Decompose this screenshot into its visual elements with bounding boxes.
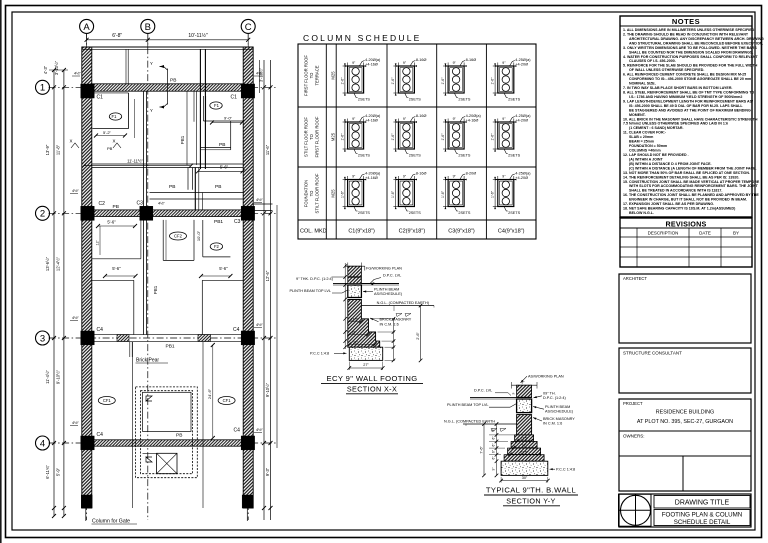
svg-text:FIRST FLOOR ROOF: FIRST FLOOR ROOF bbox=[304, 55, 309, 96]
svg-text:24'-6": 24'-6" bbox=[207, 388, 212, 399]
svg-text:IN C.M. 1:6: IN C.M. 1:6 bbox=[543, 421, 562, 425]
Y-Y dpc in stem bbox=[517, 396, 532, 398]
svg-text:X: X bbox=[70, 139, 73, 144]
svg-text:17. EXPANSION JOINT SHALL BE A: 17. EXPANSION JOINT SHALL BE AS PER DRAW… bbox=[623, 202, 714, 206]
X-X right dim 2-6 bbox=[420, 306, 422, 361]
interior v x203 bbox=[202, 342, 204, 508]
right dim line 3 bbox=[276, 205, 278, 448]
logo circle bbox=[621, 495, 651, 525]
svg-text:1'-6": 1'-6" bbox=[441, 133, 445, 141]
svg-text:6": 6" bbox=[492, 457, 496, 460]
svg-text:C1: C1 bbox=[231, 95, 238, 101]
svg-text:9. LAP LENGTH/DEVELOPMENT LEN: 9. LAP LENGTH/DEVELOPMENT LENGTH FOR REI… bbox=[623, 99, 753, 103]
M25 label row 3 bbox=[331, 189, 336, 198]
dim line right of room bbox=[134, 99, 136, 138]
column section C2 row 2 bbox=[391, 114, 426, 157]
column C4 at A3 bbox=[81, 331, 94, 345]
svg-text:CLAUSES OF I.S. 456-2000.: CLAUSES OF I.S. 456-2000. bbox=[629, 59, 676, 63]
column C1 at C1 bbox=[241, 84, 254, 98]
beam row 3 bottom edge bbox=[94, 340, 243, 342]
svg-text:PB: PB bbox=[107, 146, 113, 151]
Y-Y NGL line bbox=[463, 423, 517, 425]
Y-Y bottom dim 30 bbox=[501, 480, 548, 482]
dim line 24-6 bbox=[212, 345, 214, 438]
svg-text:OF WALL UNLESS OTHERWISE SPECI: OF WALL UNLESS OTHERWISE SPECIFIED. bbox=[629, 68, 704, 72]
svg-text:F1: F1 bbox=[112, 114, 118, 119]
svg-text:9'-0": 9'-0" bbox=[224, 116, 233, 121]
X-X PCC base bbox=[349, 347, 382, 360]
svg-text:12': 12' bbox=[96, 240, 100, 245]
svg-text:2SETS: 2SETS bbox=[458, 211, 470, 215]
X-X masonry stepped hatched bbox=[348, 300, 380, 348]
svg-text:M25: M25 bbox=[331, 189, 336, 198]
interior wall line x126 bbox=[125, 49, 127, 84]
svg-text:12'-6": 12'-6" bbox=[265, 270, 270, 281]
svg-text:1'-6": 1'-6" bbox=[340, 77, 344, 85]
Y-Y dpc line left bbox=[470, 396, 517, 398]
svg-text:(A) WITHIN A JOINT: (A) WITHIN A JOINT bbox=[629, 157, 663, 161]
beam PB mid double bbox=[150, 192, 244, 194]
svg-text:C4(9"x18"): C4(9"x18") bbox=[498, 229, 525, 235]
right dim 9-10 bbox=[265, 382, 270, 397]
svg-text:8-16Ø: 8-16Ø bbox=[416, 114, 427, 118]
left dim 6-11 bbox=[45, 465, 50, 479]
svg-text:A: A bbox=[83, 22, 90, 33]
grid circle 3 bbox=[36, 331, 50, 345]
svg-text:6": 6" bbox=[492, 429, 496, 432]
svg-text:AS/WORKING PLAN: AS/WORKING PLAN bbox=[528, 374, 564, 378]
svg-text:4½": 4½" bbox=[72, 420, 80, 425]
right dim 9-3 bbox=[265, 467, 270, 476]
svg-text:2SETS: 2SETS bbox=[508, 154, 520, 158]
partition pair below y167 bbox=[187, 168, 189, 190]
notes panel box bbox=[620, 16, 752, 217]
grid line C upper bbox=[247, 34, 249, 85]
svg-text:7'-6": 7'-6" bbox=[480, 446, 484, 454]
column section C1 row 1 bbox=[340, 58, 381, 101]
svg-text:4½": 4½" bbox=[158, 201, 166, 206]
svg-text:4½": 4½" bbox=[72, 315, 80, 320]
svg-text:CF1: CF1 bbox=[223, 398, 232, 403]
column section C3 row 1 bbox=[441, 58, 476, 101]
svg-text:5'-6": 5'-6" bbox=[219, 266, 228, 271]
svg-text:11'-8": 11'-8" bbox=[56, 144, 61, 155]
svg-text:9": 9" bbox=[522, 380, 525, 384]
svg-text:+4-16Ø: +4-16Ø bbox=[365, 176, 378, 180]
svg-text:13'-9": 13'-9" bbox=[45, 144, 50, 155]
svg-text:2. THE DRAWING SHOULD BE READ: 2. THE DRAWING SHOULD BE READ IN CONJUNC… bbox=[623, 32, 749, 36]
svg-text:1: 1 bbox=[40, 83, 45, 94]
vertical beam PB1b left bbox=[199, 49, 201, 169]
svg-text:F1: F1 bbox=[214, 103, 220, 108]
svg-text:1'-6": 1'-6" bbox=[441, 190, 445, 198]
svg-text:STILT FLOOR ROOF: STILT FLOOR ROOF bbox=[304, 117, 309, 157]
svg-text:FG/WORKING PLAN: FG/WORKING PLAN bbox=[366, 266, 402, 270]
column C3 at C2 bbox=[241, 206, 254, 220]
svg-text:1'-6": 1'-6" bbox=[491, 77, 495, 85]
pit inner solid rect bbox=[143, 392, 192, 431]
room line right v bbox=[203, 96, 205, 121]
svg-text:+4-16Ø: +4-16Ø bbox=[365, 62, 378, 66]
grid circle 1 bbox=[36, 80, 50, 94]
X-X bottom dim 27 bbox=[349, 367, 382, 369]
column base at A bottom bbox=[81, 495, 92, 508]
svg-text:SCHEDULE DETAIL: SCHEDULE DETAIL bbox=[674, 519, 731, 526]
footing mark F2 bbox=[210, 243, 222, 250]
vertical beam PB1 spine bbox=[143, 91, 145, 334]
svg-text:SECTION Y-Y: SECTION Y-Y bbox=[506, 496, 556, 505]
svg-text:13'-6½": 13'-6½" bbox=[45, 256, 50, 271]
svg-text:P.C.C 1:4:8: P.C.C 1:4:8 bbox=[556, 467, 575, 471]
svg-text:9'-10½": 9'-10½" bbox=[265, 382, 270, 397]
Y-Y stepped footing bbox=[515, 435, 534, 442]
svg-text:TO: TO bbox=[309, 133, 314, 139]
svg-text:SHALL BE COUNTED NOR THE DIMEN: SHALL BE COUNTED NOR THE DIMENSION SCALE… bbox=[629, 50, 753, 54]
wall A bottom bbox=[82, 507, 92, 509]
svg-text:SLAB = 20mm: SLAB = 20mm bbox=[629, 135, 653, 139]
svg-text:C2(9"x18"): C2(9"x18") bbox=[399, 229, 426, 235]
svg-text:2SETS: 2SETS bbox=[458, 154, 470, 158]
svg-text:Brick Pear: Brick Pear bbox=[136, 358, 159, 364]
svg-text:STILT FLOOR ROOF: STILT FLOOR ROOF bbox=[315, 173, 320, 213]
footing mark CF2 bbox=[170, 232, 187, 240]
room right v x202 bbox=[202, 220, 204, 257]
svg-text:TO: TO bbox=[309, 190, 314, 196]
logo box bbox=[619, 494, 652, 526]
svg-text:2SETS: 2SETS bbox=[508, 211, 520, 215]
svg-text:11'-4½": 11'-4½" bbox=[45, 370, 50, 384]
drawing title name box bbox=[654, 510, 750, 526]
svg-text:1'-6": 1'-6" bbox=[441, 77, 445, 85]
pit outer dashed rect bbox=[136, 387, 198, 478]
dim 10-0 rotated bbox=[196, 230, 201, 241]
svg-text:2SETS: 2SETS bbox=[409, 98, 421, 102]
right dim 3-10 bbox=[259, 67, 264, 82]
grid line 2 bbox=[49, 212, 278, 214]
grid circle 2 bbox=[36, 206, 50, 220]
svg-text:10'-0": 10'-0" bbox=[196, 230, 201, 241]
svg-text:C3: C3 bbox=[234, 219, 241, 225]
footing mark CF1 right bbox=[218, 397, 235, 405]
column section C2 row 1 bbox=[391, 58, 426, 101]
svg-text:M25: M25 bbox=[331, 71, 336, 80]
svg-text:PB: PB bbox=[170, 78, 176, 84]
svg-text:8-16Ø: 8-16Ø bbox=[416, 58, 427, 62]
svg-text:5'-6": 5'-6" bbox=[220, 165, 229, 170]
interior v x132 bbox=[132, 342, 134, 508]
svg-text:30": 30" bbox=[522, 476, 528, 480]
footing mark CF1 left bbox=[98, 397, 115, 405]
svg-text:9'-3": 9'-3" bbox=[265, 467, 270, 476]
room line 2-3 left h bbox=[92, 258, 141, 260]
svg-text:RESIDENCE BUILDING: RESIDENCE BUILDING bbox=[656, 410, 714, 416]
room mid right v bbox=[193, 220, 195, 261]
svg-text:C1: C1 bbox=[97, 95, 104, 101]
svg-text:TERRACE: TERRACE bbox=[315, 65, 320, 85]
svg-text:C4: C4 bbox=[97, 327, 104, 333]
right dim 11-6 bbox=[265, 144, 270, 155]
svg-text:4½": 4½" bbox=[74, 71, 82, 76]
svg-text:9" THK. D.P.C. (1:2:4): 9" THK. D.P.C. (1:2:4) bbox=[296, 277, 334, 281]
svg-text:1'-6": 1'-6" bbox=[491, 190, 495, 198]
pit step mark bottom bbox=[146, 457, 152, 462]
beam row 3 hatch patch left bbox=[117, 335, 129, 342]
X-X right step dims bbox=[393, 319, 395, 361]
grid circle B bbox=[141, 19, 155, 33]
svg-text:1'-6": 1'-6" bbox=[391, 190, 395, 198]
right dim line short bbox=[259, 60, 261, 93]
svg-text:IS: 456-2000 SHALL BE 49 D DIA: IS: 456-2000 SHALL BE 49 D DIA. OF BAR F… bbox=[629, 104, 743, 108]
svg-text:+4-16Ø: +4-16Ø bbox=[466, 118, 479, 122]
svg-text:7.5 N/mm2 UNLESS OTHERWISE SPE: 7.5 N/mm2 UNLESS OTHERWISE SPECIFIED AND… bbox=[623, 122, 728, 126]
svg-text:1'-6": 1'-6" bbox=[391, 133, 395, 141]
X-X plinth bottom line bbox=[348, 297, 362, 299]
svg-text:2SETS: 2SETS bbox=[358, 154, 370, 158]
room partition lines below beam bbox=[186, 91, 188, 165]
right dim 12-6 bbox=[265, 270, 270, 281]
svg-text:DRAWING TITLE: DRAWING TITLE bbox=[675, 500, 730, 507]
svg-text:6. ALL REINFORCED CEMENT CONC: 6. ALL REINFORCED CEMENT CONCRETE SHALL … bbox=[623, 73, 746, 77]
svg-text:Y: Y bbox=[150, 61, 153, 66]
svg-text:C4: C4 bbox=[233, 327, 240, 333]
Y-Y plinth beam bbox=[517, 399, 532, 413]
svg-text:ECY 9" WALL FOOTING: ECY 9" WALL FOOTING bbox=[326, 374, 417, 383]
svg-text:B: B bbox=[145, 22, 151, 33]
svg-text:9'-10½": 9'-10½" bbox=[56, 369, 61, 384]
grid circle A bbox=[80, 19, 94, 33]
svg-text:15. CONSTRUCTION JOINT SHALL B: 15. CONSTRUCTION JOINT SHALL BE MADE VER… bbox=[623, 180, 760, 184]
schedule row label 3 bbox=[304, 173, 320, 213]
svg-text:F2: F2 bbox=[214, 244, 220, 249]
X-X dpc inside stem bbox=[348, 276, 362, 278]
Y-Y upper stem hatched bbox=[517, 385, 532, 397]
svg-text:PB: PB bbox=[113, 204, 119, 210]
svg-text:PB: PB bbox=[176, 433, 182, 439]
svg-text:BRICK MASONRY: BRICK MASONRY bbox=[543, 417, 575, 421]
svg-text:8. ALL STEEL REINFORCEMENT SH: 8. ALL STEEL REINFORCEMENT SHALL BE OF T… bbox=[623, 90, 754, 94]
svg-text:3'-10½": 3'-10½" bbox=[54, 60, 59, 75]
notes title bbox=[620, 16, 752, 26]
svg-text:PB1: PB1 bbox=[166, 344, 175, 350]
svg-text:I.S.: 1786 AND HAVING MINIMUM: I.S.: 1786 AND HAVING MINIMUM YIELD STRE… bbox=[629, 95, 742, 99]
left dim 13-9 bbox=[45, 144, 50, 155]
svg-text:+4-16Ø: +4-16Ø bbox=[365, 118, 378, 122]
svg-text:SHALL BE TREATED IN ACCORDANCE: SHALL BE TREATED IN ACCORDANCE WITH IS 1… bbox=[629, 189, 722, 193]
svg-text:C4: C4 bbox=[97, 432, 104, 438]
footing mark F1 right bbox=[210, 102, 222, 109]
pit middle dashed rect bbox=[141, 391, 193, 474]
svg-text:PLINTH BEAM: PLINTH BEAM bbox=[545, 405, 570, 409]
svg-text:AS/SCHEDULE): AS/SCHEDULE) bbox=[374, 292, 403, 296]
M25 label row 2 bbox=[331, 132, 336, 141]
svg-text:27": 27" bbox=[363, 363, 369, 367]
sheet edge line left bbox=[0, 0, 2, 543]
svg-text:18": 18" bbox=[352, 330, 358, 334]
svg-text:COL. MKD: COL. MKD bbox=[300, 229, 327, 235]
svg-text:3: 3 bbox=[40, 333, 45, 344]
grid circle C bbox=[241, 19, 255, 33]
svg-text:C4: C4 bbox=[234, 428, 241, 434]
pit X diagonal 2 bbox=[157, 453, 177, 473]
beam row 3 top edge bbox=[94, 334, 243, 336]
Y-Y masonry bbox=[517, 415, 532, 435]
right dim line 2 bbox=[270, 60, 272, 520]
left dim 11-4 bbox=[45, 256, 50, 271]
svg-text:NOMINAL SIZE.: NOMINAL SIZE. bbox=[629, 82, 656, 86]
svg-text:PB: PB bbox=[219, 142, 225, 148]
svg-text:4½": 4½" bbox=[256, 322, 264, 327]
svg-text:9": 9" bbox=[492, 468, 496, 471]
pit X box bbox=[157, 453, 177, 473]
X-X ground marks bbox=[396, 314, 411, 317]
svg-text:AT PLOT NO. 395, SEC-27, GURGA: AT PLOT NO. 395, SEC-27, GURGAON bbox=[637, 419, 733, 425]
architect box bbox=[619, 274, 751, 343]
left dim 5-3 bbox=[56, 467, 61, 476]
column schedule table frame bbox=[298, 44, 536, 239]
Y-Y left dim ladder bbox=[496, 424, 498, 475]
svg-text:+4-20Ø: +4-20Ø bbox=[515, 118, 528, 122]
svg-text:2SETS: 2SETS bbox=[358, 98, 370, 102]
wall C hatched bbox=[243, 47, 253, 508]
Y-Y 7-6 dim bbox=[483, 424, 485, 475]
svg-text:N.G.L. (COMPACTED EARTH: N.G.L. (COMPACTED EARTH bbox=[444, 420, 495, 424]
svg-text:D.P.C. LVL: D.P.C. LVL bbox=[383, 274, 401, 278]
grid line 4 bbox=[49, 442, 278, 444]
svg-text:PB1: PB1 bbox=[153, 285, 158, 294]
svg-text:5'-2": 5'-2" bbox=[103, 130, 112, 135]
svg-text:BEAM = 25mm: BEAM = 25mm bbox=[629, 140, 654, 144]
grid line 1 bbox=[49, 86, 278, 88]
svg-text:(1 CEMENT : 6 SAND) MORTAR.: (1 CEMENT : 6 SAND) MORTAR. bbox=[629, 126, 683, 130]
svg-text:10'-11½": 10'-11½" bbox=[188, 32, 208, 39]
svg-text:2'-6": 2'-6" bbox=[416, 332, 420, 340]
svg-text:PROJECT: PROJECT bbox=[623, 401, 643, 406]
svg-text:CONFORMING TO IS:- 456-2000 ST: CONFORMING TO IS:- 456-2000 STONE AGGREG… bbox=[629, 77, 751, 81]
svg-text:TO: TO bbox=[309, 72, 314, 78]
svg-text:2SETS: 2SETS bbox=[508, 98, 520, 102]
svg-text:4½": 4½" bbox=[256, 197, 264, 202]
top wall edge bbox=[82, 46, 253, 48]
section mark Y upper bbox=[160, 67, 168, 71]
svg-text:COLUMNS =40mm: COLUMNS =40mm bbox=[629, 149, 661, 153]
svg-text:12. LAP SHOULD NOT BE PROVIDED: 12. LAP SHOULD NOT BE PROVIDED . bbox=[623, 153, 689, 157]
svg-text:7. IN TWO WAY SLAB PLACE SHOR: 7. IN TWO WAY SLAB PLACE SHORT BARS IN B… bbox=[623, 86, 732, 90]
svg-text:PB: PB bbox=[169, 184, 175, 190]
svg-text:1'-6": 1'-6" bbox=[391, 77, 395, 85]
svg-text:PLINTH BEAM TOP LVL: PLINTH BEAM TOP LVL bbox=[289, 289, 331, 293]
pit shelf line bbox=[143, 452, 157, 454]
svg-text:4½": 4½" bbox=[256, 71, 264, 76]
column base at C bottom bbox=[242, 495, 253, 508]
top dimension line bbox=[87, 39, 249, 41]
svg-text:Y: Y bbox=[150, 108, 153, 113]
svg-text:FOUNDATION = 50mm: FOUNDATION = 50mm bbox=[629, 144, 667, 148]
wall A hatched bbox=[82, 47, 92, 508]
svg-text:SECTION X-X: SECTION X-X bbox=[347, 385, 397, 394]
svg-text:C3: C3 bbox=[137, 201, 144, 207]
section mark Y cut line bbox=[167, 69, 169, 105]
X-X upper stem hatched bbox=[348, 266, 362, 283]
svg-text:10. ALL BRICK IN THE MASONRY S: 10. ALL BRICK IN THE MASONRY SHALL HAVE … bbox=[623, 117, 758, 121]
svg-text:TYPICAL 9"TH. B.WALL: TYPICAL 9"TH. B.WALL bbox=[486, 486, 576, 495]
svg-text:11. CLEAR COVER FOR:-: 11. CLEAR COVER FOR:- bbox=[623, 131, 667, 135]
room line right h bbox=[204, 120, 244, 122]
svg-text:OWNERS:: OWNERS: bbox=[623, 434, 645, 439]
svg-text:8-20Ø: 8-20Ø bbox=[466, 172, 477, 176]
Y-Y ground marks bbox=[491, 429, 506, 432]
svg-text:STRUCTURE CONSULTANT: STRUCTURE CONSULTANT bbox=[623, 351, 682, 356]
notes text block bbox=[623, 28, 764, 215]
svg-text:COLUMN SCHEDULE: COLUMN SCHEDULE bbox=[303, 33, 422, 43]
svg-text:(C) WITHIN A DISTANCE (A LENGT: (C) WITHIN A DISTANCE (A LENGTH OF MEMBE… bbox=[629, 166, 757, 170]
column section C1 row 3 bbox=[340, 172, 381, 215]
X-X dpc lvl lines bbox=[333, 283, 348, 285]
room line left bbox=[128, 93, 130, 129]
footing mark F1 left bbox=[109, 113, 121, 120]
svg-text:CF2: CF2 bbox=[174, 234, 183, 239]
grid line 3 bbox=[49, 337, 278, 339]
two lower boxes bbox=[619, 455, 751, 457]
right dim line 1 bbox=[263, 60, 265, 520]
column C4 at C4 bbox=[241, 436, 254, 450]
svg-text:X: X bbox=[113, 139, 116, 144]
left dim line 2 bbox=[63, 70, 65, 516]
grid line A upper bbox=[86, 34, 88, 85]
column C4 at A4 bbox=[81, 436, 94, 450]
svg-text:4½": 4½" bbox=[256, 427, 264, 432]
X-X left dim line bbox=[344, 263, 346, 349]
svg-text:C3(9"x18"): C3(9"x18") bbox=[448, 229, 475, 235]
svg-text:5'-6": 5'-6" bbox=[107, 219, 116, 224]
svg-text:AS/SCHEDULE): AS/SCHEDULE) bbox=[545, 410, 574, 414]
svg-text:11'-11½": 11'-11½" bbox=[127, 159, 143, 164]
column C2 at A2 bbox=[81, 206, 94, 220]
svg-text:BE STAGGERED AND AVOIDED AT TH: BE STAGGERED AND AVOIDED AT THE POINT OF… bbox=[629, 108, 751, 112]
svg-text:FOOTING PLAN & COLUMN: FOOTING PLAN & COLUMN bbox=[662, 512, 742, 519]
column C1 at A1 bbox=[81, 84, 94, 98]
svg-text:D.P.C. LVL: D.P.C. LVL bbox=[474, 389, 492, 393]
svg-text:13. NOT MORE THAN 50% OF BAR S: 13. NOT MORE THAN 50% OF BAR SHALL BE SP… bbox=[623, 171, 750, 175]
column section C4 row 2 bbox=[491, 114, 532, 157]
grid circle 4 bbox=[36, 436, 50, 450]
left dim 3-10 bbox=[54, 60, 59, 75]
svg-text:4. WATER FOR CONSTRUCTION PUR: 4. WATER FOR CONSTRUCTION PURPOSES SHALL… bbox=[623, 55, 759, 59]
label PB1 vertical right bbox=[180, 135, 185, 144]
room right h y257 bbox=[203, 256, 231, 258]
svg-text:BELOW N.G.L.: BELOW N.G.L. bbox=[629, 211, 654, 215]
grid line B bbox=[147, 34, 149, 520]
svg-text:+4-20Ø: +4-20Ø bbox=[515, 62, 528, 66]
beam row 3 hatch patch right bbox=[198, 335, 211, 342]
column C3 at B2 bbox=[140, 206, 153, 220]
svg-text:D.P.C. (1:2:4): D.P.C. (1:2:4) bbox=[543, 396, 566, 400]
schedule row label 1 bbox=[304, 55, 320, 96]
svg-text:P.C.C 1:4:8: P.C.C 1:4:8 bbox=[310, 352, 329, 356]
owners box bbox=[619, 430, 751, 432]
svg-text:18": 18" bbox=[522, 444, 528, 448]
svg-text:8-16Ø: 8-16Ø bbox=[416, 172, 427, 176]
room line 2-3 left v bbox=[140, 220, 142, 259]
svg-text:NOTES: NOTES bbox=[672, 17, 700, 26]
X-X plinth beam bbox=[348, 285, 362, 298]
svg-text:MOMENT.: MOMENT. bbox=[629, 113, 646, 117]
gate column leader C bbox=[246, 508, 248, 521]
svg-text:5'-9": 5'-9" bbox=[56, 467, 61, 476]
plinth beam row 4 hatched bbox=[92, 440, 243, 446]
wall line y164 bbox=[92, 163, 243, 165]
column section C1 row 2 bbox=[340, 114, 381, 157]
label PB1 spine bbox=[153, 285, 158, 294]
